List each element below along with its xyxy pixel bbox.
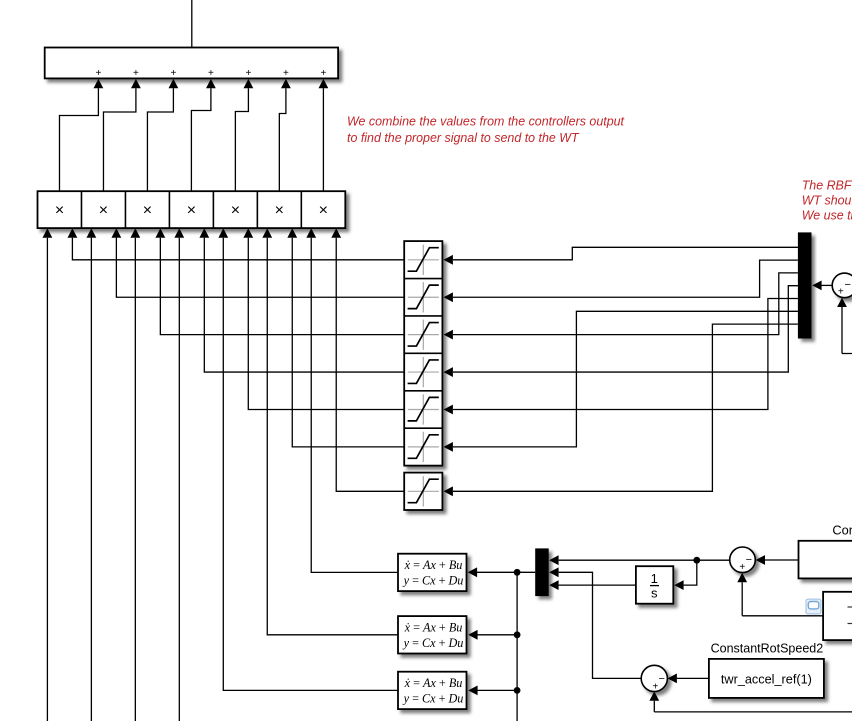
input arrows of product block 2 xyxy=(86,228,121,237)
svg-text:ẋ = Ax + Bu: ẋ = Ax + Bu xyxy=(404,676,463,690)
wire product 1 to sum input 1 xyxy=(59,79,103,191)
annotation red text (combine values) xyxy=(347,114,625,145)
svg-text:×: × xyxy=(231,202,240,219)
svg-text:+: + xyxy=(838,287,844,298)
svg-text:y = Cx + Du: y = Cx + Du xyxy=(402,636,464,650)
wire output of sum block going up off-canvas xyxy=(191,0,193,47)
wire demux output 7 to saturation 7 input xyxy=(444,324,798,496)
wire gain input 4 from bottom edge xyxy=(178,238,180,721)
wire saturation 6 output to product 6 right input xyxy=(292,238,404,447)
constant block (clipped) xyxy=(799,523,852,579)
svg-text:+: + xyxy=(208,68,214,79)
svg-text:1: 1 xyxy=(651,571,658,586)
mux (black bar, 3 inputs) xyxy=(535,548,549,596)
svg-text:+: + xyxy=(652,682,658,693)
wire product 2 to sum input 2 xyxy=(103,79,140,191)
svg-text:+: + xyxy=(739,562,745,573)
wire integrator output to mux input 3 xyxy=(549,580,636,590)
wire saturation 5 output to product 5 right input xyxy=(248,238,404,410)
wire product 6 to sum input 6 xyxy=(279,79,290,191)
wire demux output 3 to saturation 3 input xyxy=(444,273,798,340)
svg-text:s: s xyxy=(651,586,658,601)
input arrows of product block 1 xyxy=(43,228,78,237)
wire demux output 6 to saturation 6 input xyxy=(444,311,798,452)
svg-text:ConstantRotSpeed2: ConstantRotSpeed2 xyxy=(711,642,824,656)
input arrows of product block 5 xyxy=(218,228,253,237)
svg-text:ẋ = Ax + Bu: ẋ = Ax + Bu xyxy=(404,620,463,634)
wire mux output to state-space U1 input xyxy=(468,567,536,577)
svg-text:×: × xyxy=(55,202,64,219)
wire saturation 2 output to product 2 right input xyxy=(116,238,404,298)
svg-text:×: × xyxy=(99,202,108,219)
wire sum B output to mux input 1 with branch to integrator xyxy=(549,555,730,590)
svg-text:−: − xyxy=(658,673,664,685)
svg-text:−: − xyxy=(844,279,850,291)
product blocks row (7 multipliers) xyxy=(38,191,346,228)
wire demux output 4 to saturation 4 input xyxy=(444,286,798,377)
svg-text:+: + xyxy=(133,68,139,79)
wire product 3 to sum input 3 xyxy=(147,79,178,191)
state-space block U1 xyxy=(398,554,467,591)
annotation red text (RBF, clipped) xyxy=(802,178,852,222)
input arrows of product block 4 xyxy=(174,228,209,237)
constant block twr_accel_ref(1) labelled ConstantRotSpeed2 xyxy=(709,642,824,698)
sum junction circle C (+-) xyxy=(641,665,667,692)
svg-text:We combine the values from the: We combine the values from the controlle… xyxy=(347,114,625,128)
sum junction circle B (+-) xyxy=(730,547,756,573)
svg-text:−: − xyxy=(746,554,752,566)
svg-text:×: × xyxy=(319,202,328,219)
wire branch to state-space U3 input xyxy=(468,686,520,696)
wire product 4 to sum input 4 xyxy=(191,79,215,191)
saturation blocks 1-6 (stacked column) xyxy=(404,241,442,466)
wire demux output 2 to saturation 2 input xyxy=(444,260,798,302)
svg-text:+: + xyxy=(283,68,289,79)
svg-text:WT should: WT should xyxy=(802,193,852,207)
svg-text:y = Cx + Du: y = Cx + Du xyxy=(402,574,464,588)
svg-text:+: + xyxy=(170,68,176,79)
input arrows of product block 3 xyxy=(130,228,165,237)
wire demux output 1 to saturation 1 input xyxy=(444,247,798,264)
wire saturation 7 output to product 7 right input xyxy=(336,238,404,492)
svg-text:×: × xyxy=(143,202,152,219)
wire product 7 to sum input 7 xyxy=(319,79,329,191)
sum block (Add, 7 inputs) xyxy=(45,48,338,80)
wire sum C output to mux input 2 xyxy=(549,567,641,678)
wire saturation 4 output to product 4 right input xyxy=(204,238,404,372)
wire demux output 5 to saturation 5 input xyxy=(444,299,798,415)
wire state-space U2 output to product 6 left input xyxy=(267,238,397,635)
svg-text:twr_accel_ref(1): twr_accel_ref(1) xyxy=(721,673,812,687)
integrator block 1/s xyxy=(636,566,673,604)
sum junction circle A (+-) xyxy=(832,273,852,298)
svg-text:to find the proper signal to s: to find the proper signal to send to the… xyxy=(347,131,580,145)
wire gain input 2 from bottom edge xyxy=(90,238,92,721)
demux (black bar, 7 outputs) xyxy=(798,232,812,338)
svg-text:+: + xyxy=(245,68,251,79)
svg-text:Constant4: Constant4 xyxy=(832,523,852,538)
wire branch to state-space U2 input xyxy=(468,630,520,640)
input arrows of product block 6 xyxy=(262,228,297,237)
state-space block U3 xyxy=(398,672,467,709)
wire saturation 3 output to product 3 right input xyxy=(160,238,404,335)
wire feedback from right edge into sum C plus input xyxy=(649,691,852,712)
state-space block U2 xyxy=(398,616,467,653)
svg-text:ẋ = Ax + Bu: ẋ = Ax + Bu xyxy=(404,558,463,572)
wire product 5 to sum input 5 xyxy=(235,79,253,191)
wire feedback into sum A plus input xyxy=(837,298,852,354)
referenced block (clipped) with library badge xyxy=(806,592,852,640)
svg-text:The RBF n: The RBF n xyxy=(802,178,852,192)
wire sum A output to demux input xyxy=(812,281,832,291)
input arrows of product block 7 xyxy=(306,228,341,237)
wire constant block to sum B minus input xyxy=(756,555,799,565)
svg-text:+: + xyxy=(320,68,326,79)
svg-text:y = Cx + Du: y = Cx + Du xyxy=(402,692,464,706)
wire saturation 1 output to product 1 right input xyxy=(72,238,404,260)
wire gain input 1 from bottom edge xyxy=(46,238,48,721)
svg-text:×: × xyxy=(187,202,196,219)
svg-text:We use the: We use the xyxy=(802,208,852,222)
wire block output to sum B plus input xyxy=(737,573,823,616)
wire state-space U3 output to product 5 left input xyxy=(223,238,397,691)
wire junction vertical to off-canvas bottom xyxy=(516,572,518,721)
svg-text:+: + xyxy=(95,68,101,79)
saturation block 7 xyxy=(404,473,442,510)
wire gain input 3 from bottom edge xyxy=(134,238,136,721)
wire twr_accel_ref to sum C minus input xyxy=(668,674,709,684)
svg-text:×: × xyxy=(275,202,284,219)
wire state-space U1 output to product 7 left input xyxy=(311,238,397,573)
